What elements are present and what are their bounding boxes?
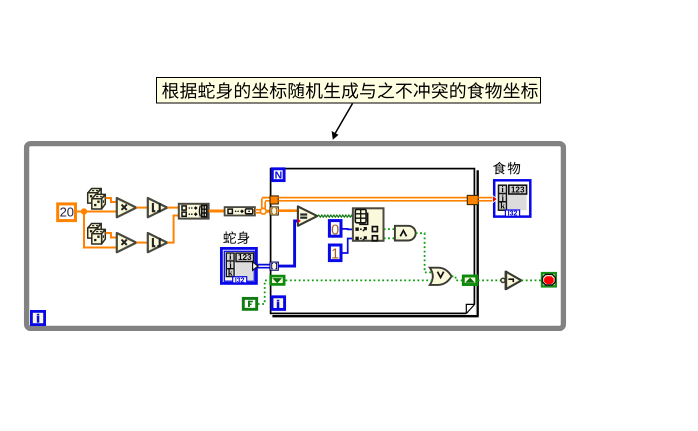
NOT gate bbox=[501, 271, 522, 290]
wire: index outputs to AND gate (dotted green) bbox=[384, 228, 395, 230]
index array node bbox=[353, 208, 384, 241]
for loop border bbox=[271, 169, 479, 317]
tunnel: solid orange (left, no index) bbox=[270, 196, 278, 204]
wire: 20 to multiply nodes with junction bbox=[77, 208, 117, 247]
wire: constant 1 to index node bbox=[342, 239, 353, 254]
wire: shift register to OR gate (long dotted green) bbox=[286, 279, 433, 281]
for loop count terminal N bbox=[272, 169, 284, 182]
coercion arrow (red) at equals input bbox=[297, 219, 301, 224]
snake body control label 蛇身 bbox=[223, 231, 249, 244]
svg-text:I32: I32 bbox=[508, 211, 518, 218]
tunnel: auto-index [] for coordinates bbox=[270, 207, 278, 215]
round-to-nearest node R1 bbox=[148, 198, 168, 217]
wire: constant 0 to index node bbox=[342, 228, 353, 231]
wire: equals output boolean array (green zigzag) to index node bbox=[317, 215, 352, 217]
svg-text:k: k bbox=[228, 267, 233, 277]
input arrow (red) at food indicator bbox=[493, 195, 498, 203]
wire: tunnel to food indicator double line bbox=[478, 198, 492, 201]
wire: M1 to R1 bbox=[136, 207, 148, 209]
numeric constant 0 bbox=[329, 221, 341, 239]
svg-text:123: 123 bbox=[238, 253, 252, 262]
svg-text:I32: I32 bbox=[235, 277, 245, 284]
shift register left (down arrow) bbox=[271, 276, 284, 284]
round-to-nearest node R2 bbox=[148, 233, 168, 252]
random number dice icon 1 bbox=[88, 189, 106, 210]
svg-text:123: 123 bbox=[511, 185, 525, 194]
comment label: 根据蛇身的坐标随机生成与之不冲突的食物坐标 bbox=[157, 78, 541, 104]
wire: NOT to stop terminal bbox=[521, 279, 541, 281]
wire: R1 to build array bbox=[167, 207, 178, 209]
for loop iteration terminal i bbox=[272, 297, 285, 310]
svg-text:k: k bbox=[500, 201, 505, 211]
wire: R2 up to build array input 2 bbox=[167, 216, 178, 243]
tunnel: auto-index [] for snake body bbox=[270, 262, 278, 270]
wire: build array to array-to-cluster bbox=[209, 210, 225, 213]
wire: AND to OR (dotted green) bbox=[416, 233, 431, 272]
tunnel: solid orange (right border out to indicator) bbox=[467, 195, 478, 204]
wire: dice1 to multiply M1 bbox=[106, 198, 117, 202]
random number dice icon 2 bbox=[88, 224, 106, 245]
food array indicator bbox=[494, 180, 530, 217]
equals node bbox=[298, 206, 317, 225]
while loop iteration terminal i bbox=[31, 311, 44, 324]
wire: index tunnel to equals node bbox=[278, 209, 298, 212]
numeric constant 20 bbox=[58, 204, 76, 221]
svg-text:N: N bbox=[275, 170, 283, 182]
svg-text:1: 1 bbox=[331, 247, 339, 263]
wire: OR output to right shift register bbox=[452, 276, 462, 280]
OR gate bbox=[430, 268, 452, 285]
wire: dice2 to multiply M2 bbox=[106, 233, 117, 238]
wire: up shift register to NOT gate bbox=[478, 279, 501, 281]
wire: cluster-array double line to for loop tunnels, with junction bbox=[255, 198, 270, 213]
while loop border bbox=[27, 144, 564, 329]
wire: top cluster-array double line across for loop bbox=[278, 198, 468, 201]
array to cluster node bbox=[225, 207, 255, 215]
multiply node M1 bbox=[117, 198, 137, 217]
wire: M2 to R2 bbox=[136, 242, 148, 244]
boolean constant F bbox=[243, 298, 256, 309]
stop button terminal bbox=[542, 273, 556, 286]
annotation arrow from label to while loop bbox=[332, 104, 353, 140]
wire: F to left shift register (dotted green) bbox=[258, 280, 270, 304]
numeric constant 1 bbox=[329, 245, 341, 263]
build array node bbox=[179, 204, 209, 219]
wire: snake row to equals node (thick blue) bbox=[278, 221, 298, 266]
AND gate bbox=[395, 226, 416, 241]
multiply node M2 bbox=[117, 233, 137, 252]
svg-text:0: 0 bbox=[331, 222, 339, 238]
food indicator label 食物 bbox=[493, 162, 520, 175]
shift register right (up arrow) bbox=[463, 276, 476, 285]
svg-text:20: 20 bbox=[60, 205, 74, 220]
wire: snake body 2D-array into loop (double blue) bbox=[258, 265, 271, 268]
snake body array control bbox=[221, 248, 258, 284]
